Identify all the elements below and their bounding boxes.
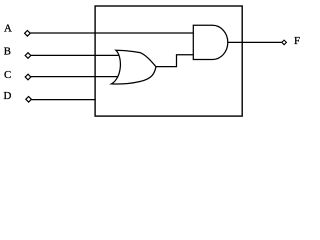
svg-text:C: C [4,69,11,81]
output terminal F [282,40,287,45]
AND gate U2 [193,25,227,59]
input terminal B [25,53,31,59]
svg-text:B: B [4,46,11,58]
wire C to OR gate input [31,76,119,78]
input terminal A [25,31,31,37]
svg-text:D: D [4,90,12,102]
wire D to box edge [31,99,95,101]
svg-text:F: F [294,35,300,47]
enclosing box (circuit block outline) [95,6,242,116]
input terminal C [25,74,31,80]
wire B to OR gate input [31,54,120,56]
input terminal D [26,97,32,103]
wire A to AND gate input [30,32,193,34]
wire AND output to terminal F [228,41,282,43]
svg-text:A: A [4,22,12,34]
wire OR output to AND gate lower input (step) [156,55,193,67]
OR gate U1 [111,50,156,84]
